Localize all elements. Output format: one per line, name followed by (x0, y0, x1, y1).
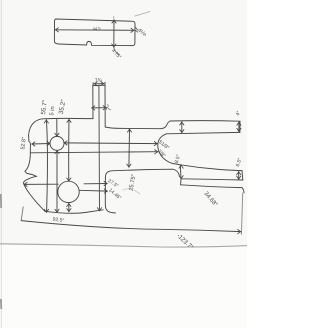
bar left ext (180, 179, 182, 185)
band right dim (238, 122, 240, 132)
bar bottom edge (181, 179, 243, 180)
shelf left edge with J-curve (105, 178, 115, 214)
small circle (50, 136, 64, 150)
tower (93, 85, 105, 127)
tower top ticks (93, 82, 105, 85)
comma mark (144, 34, 146, 36)
faint smudge (123, 189, 140, 194)
top shape outline (54, 19, 135, 46)
L2 leader (31, 152, 158, 153)
left edge dark mark 1 (0, 194, 2, 208)
top shape vertical dim tail (114, 47, 120, 55)
tower top tiny dim (94, 83, 104, 85)
fold line (0, 244, 247, 247)
right extension (241, 193, 242, 234)
top shape right side tick (136, 28, 138, 33)
left extension (21, 207, 23, 220)
V4 dim (68, 203, 70, 211)
bottom edge (45, 210, 103, 213)
bottom long dim (21, 221, 241, 232)
top-left arc (29, 119, 43, 135)
paper left edge (0, 0, 2, 328)
main top edge (43, 117, 94, 119)
big circle (58, 181, 79, 202)
band right edge (239, 121, 241, 132)
bar right dim (238, 172, 240, 180)
neck right S-curve down (158, 134, 181, 165)
leader 14.46 (79, 189, 107, 192)
V2 dim (56, 119, 58, 212)
svg-text:44.5: 44.5 (93, 26, 102, 31)
tower width dim (92, 107, 107, 109)
bar left edge (179, 165, 182, 179)
shelf rounded corner and top edge (105, 169, 179, 177)
bar right edge (241, 171, 244, 180)
top shape dim line (55, 29, 134, 32)
paper background (0, 0, 247, 328)
neck top horizontal (105, 127, 161, 129)
leader 27.5 (24, 183, 107, 186)
faint stray stroke top right (135, 12, 150, 17)
L1 dim (32, 143, 50, 146)
V3 dim (68, 119, 70, 181)
center long vertical (98, 85, 101, 210)
V1 dim (46, 120, 47, 213)
part bottom edge right (181, 185, 245, 193)
bar top edge (180, 165, 242, 171)
neck S-curve up (161, 121, 170, 129)
band bottom edge (167, 132, 240, 133)
svg-text:5 in: 5 in (49, 106, 56, 116)
left edge wavy (23, 135, 45, 211)
bar left dim (179, 165, 183, 168)
band left dim (181, 122, 183, 133)
band top edge (170, 120, 240, 123)
left edge dark mark 2 (0, 299, 2, 309)
25.75 dim (128, 129, 131, 167)
top shape vertical dim (113, 20, 115, 47)
